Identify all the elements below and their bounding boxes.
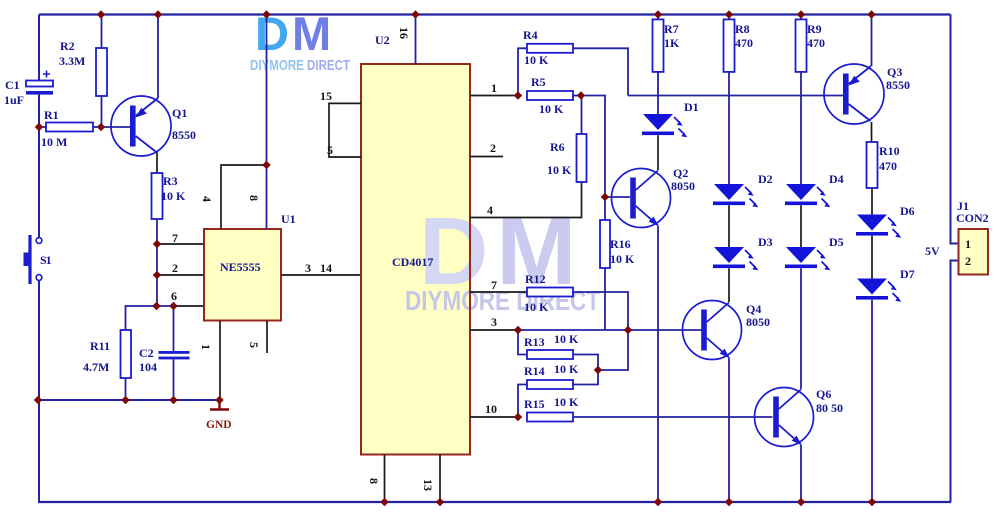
wire 4017 pin13 to bottom rail [439, 455, 441, 503]
svg-text:R6: R6 [550, 140, 565, 154]
resistor R6 [577, 96, 587, 183]
svg-text:104: 104 [139, 360, 157, 374]
transistor Q4 8050 [683, 301, 742, 503]
wire pin3 row to Q4 base [518, 329, 702, 331]
svg-text:CD4017: CD4017 [392, 255, 433, 269]
wire left rail top to C1 [38, 15, 40, 82]
svg-text:R5: R5 [531, 75, 546, 89]
node ground rail left [34, 396, 42, 404]
wire 4017 pin3 stub [470, 329, 518, 331]
resistor R8 [724, 15, 735, 185]
wire 555 pin3 to 4017 pin14 [281, 274, 361, 276]
counter U2 CD4017 box border [361, 64, 470, 455]
resistor R1 [39, 123, 101, 132]
wire 4017 pin16 to top rail [415, 15, 417, 65]
node 555 pin2 [153, 271, 161, 279]
svg-text:4: 4 [200, 196, 214, 202]
wire top supply rail [39, 13, 951, 15]
svg-text:10: 10 [485, 402, 497, 416]
transistor Q3 8550 [824, 15, 884, 143]
resistor R9 [796, 15, 807, 185]
svg-text:C1: C1 [5, 78, 20, 92]
svg-text:R2: R2 [60, 39, 75, 53]
wire right rail upper segment to J1 pin1 [951, 15, 959, 244]
wire 555 pin2 stub [157, 274, 204, 276]
transistor Q1 8550 [101, 15, 171, 174]
node ground rail R11 [121, 396, 129, 404]
svg-text:3.3M: 3.3M [59, 54, 85, 68]
svg-text:10 K: 10 K [547, 163, 572, 177]
op-amp U1 NE5555 box border [204, 229, 281, 321]
node Q2 base tap [601, 193, 609, 201]
resistor R11 [121, 330, 132, 400]
svg-text:3: 3 [491, 315, 497, 329]
transistor Q6 8050 [755, 388, 814, 503]
svg-text:13: 13 [421, 479, 435, 491]
svg-text:2: 2 [965, 254, 971, 268]
svg-text:1K: 1K [664, 36, 680, 50]
node bottom rail Q4 emitter [725, 498, 733, 506]
node ground rail C2 [169, 396, 177, 404]
node 555 pin6 [152, 302, 160, 310]
node bottom rail Q6 emitter [797, 498, 805, 506]
svg-text:R14: R14 [524, 364, 545, 378]
svg-text:2: 2 [490, 141, 496, 155]
svg-text:C2: C2 [139, 346, 154, 360]
node top rail Q3 emitter [867, 10, 875, 18]
LED D4 [785, 184, 830, 207]
wire C1 bottom to R1 junction to switch [38, 95, 40, 238]
resistor R15 [527, 413, 773, 422]
svg-text:4: 4 [487, 203, 493, 217]
wire 4017 pin15 pin5 tie [329, 103, 361, 157]
resistor R3 [152, 173, 163, 244]
svg-text:CON2: CON2 [956, 211, 989, 225]
resistor R2 [96, 15, 107, 128]
svg-text:1: 1 [199, 344, 213, 350]
resistor R14 [518, 370, 598, 417]
svg-text:Q2: Q2 [673, 166, 688, 180]
svg-text:D2: D2 [758, 172, 773, 186]
svg-text:3: 3 [305, 261, 311, 275]
svg-text:8050: 8050 [746, 315, 770, 329]
resistor R13 [518, 330, 598, 370]
wire R5 junction to Q2 base column [581, 96, 605, 198]
wire ground net rail [38, 399, 220, 401]
svg-text:1: 1 [491, 81, 497, 95]
wire 4017 pin7 stub [470, 291, 527, 293]
svg-text:DIYMORE DIRECT: DIYMORE DIRECT [250, 58, 350, 74]
svg-text:470: 470 [735, 36, 753, 50]
svg-text:470: 470 [879, 159, 897, 173]
svg-text:5: 5 [327, 143, 333, 157]
wire D3 to Q4 collector [728, 268, 730, 302]
svg-text:R7: R7 [664, 22, 679, 36]
node top rail R7 [654, 10, 662, 18]
svg-text:R15: R15 [524, 397, 545, 411]
wire Q2 base [605, 196, 630, 198]
svg-text:2: 2 [172, 261, 178, 275]
svg-text:D4: D4 [829, 172, 844, 186]
node 4017 pin3 R13 [514, 326, 522, 334]
svg-text:R1: R1 [44, 108, 59, 122]
node top rail R9 [797, 10, 805, 18]
svg-text:10 K: 10 K [524, 53, 549, 67]
wire 4017 pin1 stub [470, 95, 518, 97]
svg-text:Q4: Q4 [746, 302, 761, 316]
node R5 R6 junction [577, 91, 585, 99]
svg-text:7: 7 [491, 278, 497, 292]
svg-text:Q1: Q1 [172, 106, 187, 120]
wire R13 R14 junction to pin3 junction [598, 330, 628, 370]
node top rail 555 pin8 [262, 10, 270, 18]
svg-text:R16: R16 [610, 237, 631, 251]
node R1 right Q1 base [97, 123, 105, 131]
resistor R10 [867, 142, 878, 215]
node Q4 base junction [624, 326, 632, 334]
svg-text:15: 15 [320, 89, 332, 103]
connector J1 box fill [959, 229, 989, 275]
svg-text:4.7M: 4.7M [83, 360, 109, 374]
svg-text:7: 7 [172, 231, 178, 245]
svg-text:1uF: 1uF [4, 93, 24, 107]
svg-text:S1: S1 [40, 253, 52, 267]
node top rail Q1 emitter [154, 10, 162, 18]
LED D3 [713, 247, 758, 270]
svg-text:10 K: 10 K [554, 362, 579, 376]
wire 555 pin6 stub [174, 305, 204, 307]
LED D2 [713, 184, 758, 207]
node top rail 4017 pin16 [411, 10, 419, 18]
wire D7 to bottom rail [871, 300, 873, 502]
wire 4017 pin4 to R6 bottom [470, 182, 582, 218]
wire pin6 to R11 branch [126, 306, 175, 330]
svg-text:16: 16 [397, 27, 411, 39]
svg-text:10 M: 10 M [41, 135, 67, 149]
node ground rail 555 pin1 [215, 396, 223, 404]
capacitor C2 [159, 306, 190, 400]
wire D5 to Q6 collector [800, 268, 802, 389]
node 555 pin7 [153, 240, 161, 248]
wire right rail lower segment from J1 pin2 [951, 261, 959, 503]
LED D7 [856, 279, 901, 302]
svg-text:8: 8 [247, 195, 261, 201]
svg-text:5V: 5V [925, 244, 940, 258]
node bottom rail 4017 pin8 [380, 498, 388, 506]
svg-text:Q6: Q6 [816, 387, 831, 401]
wire 555 pin1 down to ground [219, 321, 221, 400]
wire 555 pin4 stub up [221, 165, 267, 229]
svg-text:8050: 8050 [671, 179, 695, 193]
svg-text:8550: 8550 [172, 128, 196, 142]
svg-text:8550: 8550 [886, 78, 910, 92]
wire bottom rail [38, 501, 951, 503]
svg-text:14: 14 [320, 261, 332, 275]
svg-text:8: 8 [367, 478, 381, 484]
node C2 tap [169, 302, 177, 310]
node 555 pin4 pin8 [262, 161, 270, 169]
wire 4017 pin8 to bottom rail [384, 455, 386, 503]
resistor R7 [653, 15, 664, 115]
wire D2 to D3 [728, 205, 730, 247]
counter U2 CD4017 box fill [361, 64, 470, 455]
node top rail R8 [725, 10, 733, 18]
svg-text:D6: D6 [900, 204, 915, 218]
svg-text:GND: GND [206, 419, 232, 431]
transistor Q2 8050 [612, 169, 671, 503]
svg-text:NE5555: NE5555 [220, 260, 261, 274]
wire 555 pin5 stub dangling [266, 321, 268, 353]
wire Q3 base line [628, 95, 843, 97]
svg-text:6: 6 [171, 289, 177, 303]
svg-text:D7: D7 [900, 267, 915, 281]
wire 555 pin7 stub [157, 243, 204, 245]
LED D5 [785, 247, 830, 270]
wire 555 pin7 to pin2 to pin6 [156, 244, 158, 306]
svg-text:10 K: 10 K [554, 332, 579, 346]
wire D6 to D7 [871, 236, 873, 279]
svg-text:R4: R4 [523, 28, 538, 42]
wire 4017 pin2 stub dangling [470, 156, 503, 158]
capacitor C1 [26, 71, 53, 95]
node R1 left [35, 123, 43, 131]
svg-text:10 K: 10 K [554, 395, 579, 409]
node 4017 pin10 R14 R15 [514, 413, 522, 421]
op-amp U1 NE5555 box fill [204, 229, 281, 321]
svg-text:R3: R3 [163, 174, 178, 188]
resistor R5 [527, 91, 581, 100]
svg-text:R11: R11 [90, 339, 110, 353]
resistor R16 [600, 197, 610, 330]
wire D1 to Q2 collector [657, 135, 659, 170]
svg-text:1: 1 [965, 237, 971, 251]
wire D4 to D5 [800, 205, 802, 247]
node bottom rail Q2 emitter [654, 498, 662, 506]
svg-text:10 K: 10 K [161, 189, 186, 203]
svg-text:Q3: Q3 [887, 65, 902, 79]
svg-text:R13: R13 [524, 335, 545, 349]
svg-text:R12: R12 [525, 272, 546, 286]
svg-text:10 K: 10 K [524, 300, 549, 314]
LED D1 [642, 114, 687, 137]
node 4017 pin1 R4 R5 [514, 91, 522, 99]
svg-text:R10: R10 [879, 144, 900, 158]
svg-text:80 50: 80 50 [816, 401, 843, 415]
svg-text:U1: U1 [281, 212, 296, 226]
node bottom rail 4017 pin13 [436, 498, 444, 506]
node bottom rail D7 [868, 498, 876, 506]
node R13 R14 junction [594, 366, 602, 374]
svg-text:R8: R8 [735, 22, 750, 36]
LED D6 [856, 215, 901, 238]
switch S1 [24, 235, 42, 284]
ground symbol GND [206, 400, 232, 431]
svg-text:5: 5 [247, 342, 261, 348]
wire switch bottom to ground rail to bottom-left corner [38, 280, 40, 502]
wire 4017 pin10 stub [470, 416, 518, 418]
resistor R4 [518, 44, 628, 96]
svg-text:10 K: 10 K [610, 252, 635, 266]
svg-text:D3: D3 [758, 235, 773, 249]
svg-text:470: 470 [807, 36, 825, 50]
svg-text:D5: D5 [829, 235, 844, 249]
svg-text:D1: D1 [684, 100, 699, 114]
svg-text:R9: R9 [807, 22, 822, 36]
svg-text:U2: U2 [375, 33, 390, 47]
wire 555 pin8 to top rail [266, 15, 268, 230]
connector J1 box border [959, 229, 989, 275]
svg-text:10 K: 10 K [539, 102, 564, 116]
resistor R12 [527, 288, 628, 331]
node top rail R2 [97, 10, 105, 18]
